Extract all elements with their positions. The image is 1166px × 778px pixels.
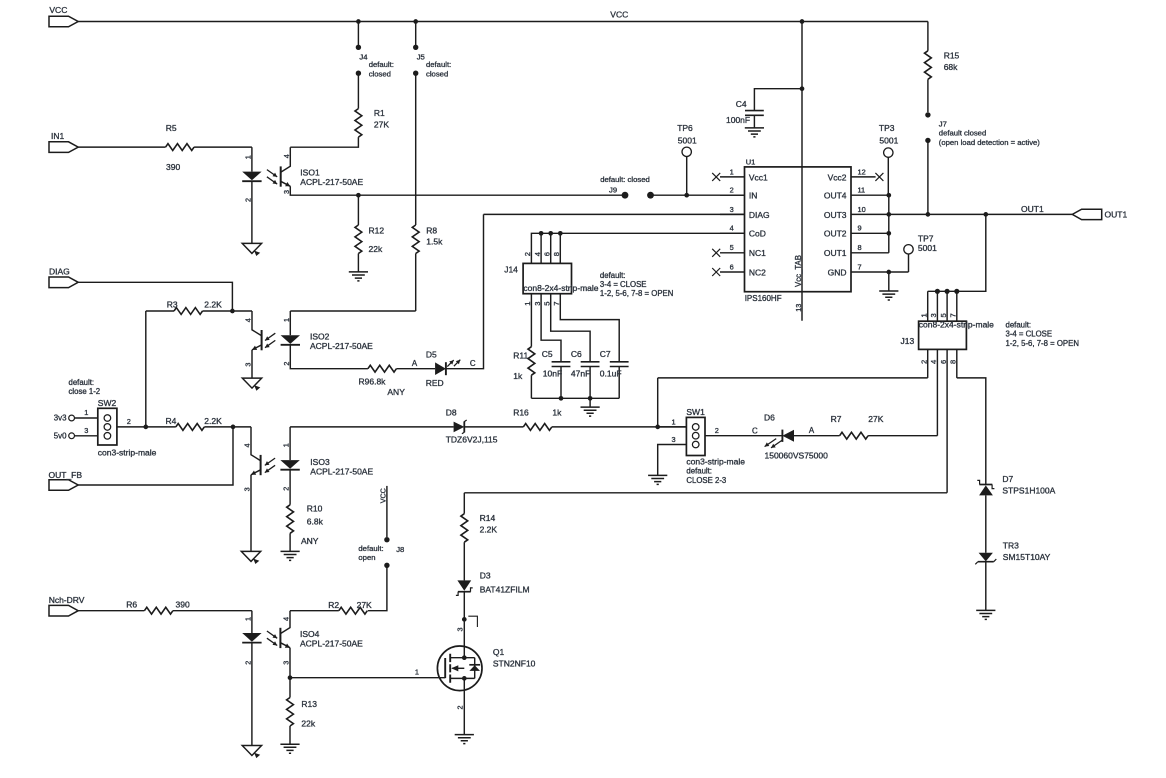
svg-text:3: 3: [672, 435, 676, 444]
capacitor C4: [726, 89, 802, 128]
junction Q1 source: [462, 676, 467, 681]
svg-text:3: 3: [456, 628, 465, 632]
ISO3 LED anode lead: [289, 427, 291, 460]
switch SW2 con3-strip-male: [69, 378, 157, 458]
svg-text:default:: default:: [426, 60, 451, 69]
svg-text:R15: R15: [944, 50, 960, 60]
junction C5 rail: [559, 396, 564, 401]
junction J13 pin 7: [954, 289, 959, 294]
svg-text:RED: RED: [426, 378, 444, 388]
svg-text:0.1uF: 0.1uF: [600, 369, 622, 379]
svg-text:R5: R5: [166, 123, 177, 133]
wire DIAG to R3 junction: [78, 282, 232, 311]
junction OUT1 drop: [983, 212, 988, 217]
J13 default note: [1006, 321, 1079, 348]
svg-text:CoD: CoD: [749, 229, 766, 239]
J14 top pin 6: [550, 233, 552, 263]
resistor R1: [290, 108, 389, 147]
svg-text:OUT3: OUT3: [824, 210, 847, 220]
wire OUT1 drop to J13: [928, 214, 986, 291]
jumper J5: [413, 22, 451, 226]
svg-text:1k: 1k: [513, 371, 523, 381]
U1 pin 11 OUT4: [824, 186, 889, 201]
wire R5 to ISO1 pin1: [194, 146, 252, 148]
U1 pin 7 GND: [828, 262, 909, 277]
U1 pin 3 DIAG: [720, 205, 770, 220]
svg-text:27K: 27K: [868, 414, 883, 424]
svg-text:R96.8k: R96.8k: [359, 377, 387, 387]
svg-text:STN2NF10: STN2NF10: [493, 659, 536, 669]
wire R8 to ISO2 LED pin1: [290, 310, 415, 312]
svg-text:5v0: 5v0: [54, 431, 67, 440]
J14 default note: [600, 271, 673, 298]
wire gate to Q1: [290, 677, 445, 679]
SW2 pin 2 wire: [117, 417, 176, 427]
svg-text:SM15T10AY: SM15T10AY: [1003, 552, 1051, 562]
svg-text:C7: C7: [600, 349, 611, 359]
ground R10: [281, 551, 300, 560]
J13 bottom pin 4: [929, 349, 938, 435]
svg-text:ACPL-217-50AE: ACPL-217-50AE: [310, 466, 373, 476]
svg-text:R2: R2: [328, 600, 339, 610]
ground R13: [280, 744, 299, 753]
svg-text:4: 4: [243, 444, 252, 448]
svg-text:closed: closed: [426, 69, 448, 78]
wire U1 CoD to J14: [531, 233, 744, 263]
J13 bottom pin 2: [919, 349, 928, 378]
svg-text:ISO2: ISO2: [310, 332, 330, 342]
svg-text:TP3: TP3: [879, 123, 895, 133]
svg-text:IN: IN: [749, 191, 758, 201]
wire VCC stub J8: [386, 486, 388, 537]
svg-text:R8: R8: [426, 225, 437, 235]
ISO2 phototransistor: [261, 330, 263, 350]
ISO3 LED: [280, 460, 299, 469]
svg-text:27K: 27K: [374, 120, 389, 130]
svg-text:1: 1: [243, 155, 252, 159]
ISO2 LED: [281, 335, 300, 344]
svg-text:ACPL-217-50AE: ACPL-217-50AE: [300, 177, 363, 187]
svg-text:2: 2: [523, 252, 532, 256]
junction J4 tap: [356, 19, 361, 24]
U1 pin 1 Vcc1: [712, 167, 768, 182]
node VCC input connector: [49, 16, 78, 27]
svg-text:100nF: 100nF: [726, 115, 750, 125]
svg-text:VCC: VCC: [49, 5, 67, 15]
resistor R12: [355, 195, 384, 272]
opto-isolator ISO3: [243, 427, 374, 492]
junction Q1 drain node: [462, 617, 467, 622]
opto-isolator ISO2: [243, 311, 373, 367]
svg-text:2.2K: 2.2K: [480, 524, 498, 534]
resistor R11: [513, 347, 535, 399]
junction J5 tap: [413, 19, 418, 24]
wire capacitor ground rail: [531, 397, 619, 399]
svg-text:D3: D3: [480, 570, 491, 580]
svg-text:2.2K: 2.2K: [204, 416, 222, 426]
connector J13 con8-2x4-strip-male: [901, 319, 995, 349]
wire ISO3 emitter to ground: [250, 475, 252, 552]
SW1 pin 1 wire: [658, 417, 687, 427]
ISO1 LED: [242, 172, 261, 181]
svg-text:default:: default:: [69, 378, 95, 387]
svg-text:1: 1: [919, 313, 928, 317]
ISO1 phototransistor: [280, 166, 282, 186]
resistor R2: [328, 600, 372, 614]
U1 pin 8 OUT1: [824, 243, 889, 258]
svg-text:R7: R7: [831, 414, 842, 424]
svg-text:default: closed: default: closed: [600, 175, 650, 184]
svg-text:3: 3: [282, 661, 291, 665]
wire ISO2 LED cathode to R96.8k: [290, 345, 368, 369]
svg-text:3-4 = CLOSE: 3-4 = CLOSE: [1006, 330, 1053, 339]
svg-text:6: 6: [939, 360, 948, 364]
svg-text:2.2K: 2.2K: [204, 300, 222, 310]
zener diode D8 TDZ6V2J,115: [446, 407, 498, 444]
svg-text:C: C: [470, 359, 476, 368]
svg-text:R1: R1: [374, 108, 385, 118]
testpoint TP3: [879, 123, 899, 195]
svg-text:default:: default:: [369, 60, 394, 69]
svg-text:NC2: NC2: [749, 267, 766, 277]
svg-text:1: 1: [730, 167, 734, 176]
svg-text:47nF: 47nF: [571, 369, 590, 379]
junction J13 pin 5: [945, 289, 950, 294]
wire J13 pin6 to bottom rail: [464, 492, 947, 494]
ground C4: [745, 128, 764, 137]
svg-text:2: 2: [282, 487, 291, 491]
op-amp U1 IPS160HF body: [745, 158, 852, 304]
wire TR3 to ground: [985, 562, 987, 611]
svg-text:7: 7: [949, 313, 958, 317]
svg-text:390: 390: [176, 599, 190, 609]
svg-text:5001: 5001: [678, 135, 697, 145]
ground capacitor rail: [581, 407, 600, 416]
svg-text:OUT1: OUT1: [824, 248, 847, 258]
ISO4 light arrows: [267, 631, 277, 638]
wire ISO4 emitter to junction: [289, 648, 291, 698]
ground TR3: [976, 610, 995, 619]
svg-text:1: 1: [282, 318, 291, 322]
node OUT1 output connector: [1072, 209, 1101, 219]
svg-text:R11: R11: [513, 350, 528, 360]
capacitor C5: [542, 349, 571, 398]
U1 pin 5 NC1: [712, 243, 766, 258]
svg-text:C4: C4: [736, 99, 747, 109]
svg-text:1k: 1k: [552, 407, 562, 417]
resistor R15: [925, 22, 960, 113]
wire ISO3 LED cathode to R10: [289, 470, 291, 505]
ground U1 GND: [879, 291, 898, 300]
svg-text:6: 6: [542, 252, 551, 256]
svg-text:ISO4: ISO4: [300, 629, 320, 639]
svg-text:R6: R6: [126, 599, 137, 609]
ISO3 light arrows: [265, 458, 275, 465]
svg-text:close 1-2: close 1-2: [69, 387, 101, 396]
wire U1 DIAG pin3: [484, 213, 745, 215]
wire J9 to U1 IN: [651, 194, 745, 196]
J13 top pin 3: [929, 291, 938, 321]
svg-text:OUT_FB: OUT_FB: [49, 470, 83, 480]
J13 bottom pin 8: [949, 349, 958, 378]
ISO1 LED anode lead: [251, 147, 253, 171]
wire ISO1 LED cathode: [251, 181, 253, 243]
svg-text:R13: R13: [301, 699, 317, 709]
svg-text:3: 3: [243, 363, 252, 367]
wire J13 pin4 to R7: [868, 435, 937, 437]
resistor R8: [412, 225, 443, 311]
wire GND stem: [888, 272, 890, 291]
wire J13 pin8 to D7 column: [957, 378, 986, 485]
svg-text:con8-2x4-strip-male: con8-2x4-strip-male: [523, 283, 598, 293]
svg-text:D5: D5: [426, 349, 437, 359]
svg-text:390: 390: [166, 162, 180, 172]
svg-text:150060VS75000: 150060VS75000: [765, 451, 829, 461]
U1 pin 6 NC2: [712, 262, 766, 277]
svg-text:STPS1H100A: STPS1H100A: [1002, 486, 1055, 496]
ISO4 LED: [242, 633, 261, 642]
wire bottom rail to R14: [463, 493, 465, 514]
svg-text:IN1: IN1: [51, 131, 65, 141]
ISO1 light arrows: [267, 170, 277, 177]
wire Vcc_TAB column: [801, 22, 803, 321]
svg-text:OUT1: OUT1: [1105, 210, 1128, 220]
svg-text:C5: C5: [542, 349, 553, 359]
testpoint TP7: [904, 234, 937, 273]
opto-isolator ISO1: [242, 147, 363, 202]
svg-text:BAT41ZFILM: BAT41ZFILM: [480, 584, 530, 594]
wire D3 to Q1 drain: [463, 592, 465, 658]
junction C4 tap: [800, 86, 805, 91]
svg-text:2: 2: [456, 706, 465, 710]
svg-text:2: 2: [243, 198, 252, 202]
wire OUT3 rail to OUT1 connector: [851, 213, 1072, 215]
U1 pin 4 CoD: [720, 224, 766, 239]
svg-text:10: 10: [858, 205, 866, 214]
wire OUT bus vertical: [888, 195, 890, 253]
resistor R3: [146, 300, 233, 315]
svg-text:1.5k: 1.5k: [426, 236, 443, 246]
J13 top pin 1: [919, 291, 928, 321]
svg-text:VCC: VCC: [610, 10, 628, 20]
svg-text:R14: R14: [480, 513, 496, 523]
junction SW1 pin1: [655, 425, 660, 430]
J13 top pin 7: [949, 291, 958, 321]
wire R16 to SW1: [552, 426, 687, 428]
wire D8 to R16: [464, 426, 523, 428]
svg-text:4: 4: [282, 617, 291, 621]
node OUT_FB input connector: [49, 480, 78, 491]
wire VCC rail: [78, 21, 928, 23]
wire ISO2 emitter to ground: [251, 350, 253, 378]
svg-text:11: 11: [858, 186, 866, 195]
junction Q1 drain: [462, 655, 467, 660]
J14 top pin 8: [559, 233, 561, 263]
svg-text:ACPL-217-50AE: ACPL-217-50AE: [310, 341, 373, 351]
svg-text:12: 12: [858, 167, 866, 176]
svg-text:1: 1: [415, 668, 419, 677]
U1 pin 10 OUT3: [824, 205, 866, 220]
svg-text:default closed: default closed: [939, 129, 986, 138]
ground ISO1 LED: [242, 243, 261, 253]
svg-text:con3-strip-male: con3-strip-male: [686, 456, 745, 466]
transistor Q1 STN2NF10: [437, 646, 535, 691]
junction OUT3 bus: [886, 212, 891, 217]
ground ISO3: [241, 551, 260, 561]
svg-text:J14: J14: [504, 265, 518, 275]
ISO4 phototransistor: [279, 628, 281, 648]
svg-text:3v3: 3v3: [54, 414, 67, 423]
junction R15 column: [926, 212, 931, 217]
svg-text:open: open: [358, 553, 375, 562]
svg-text:4: 4: [533, 252, 542, 256]
node Nch-DRV input connector: [49, 605, 78, 616]
ISO4 LED anode lead: [251, 611, 253, 633]
J14 top pin 4: [540, 233, 542, 263]
svg-text:TP7: TP7: [918, 234, 934, 244]
svg-text:OUT4: OUT4: [824, 191, 847, 201]
svg-text:5001: 5001: [879, 135, 898, 145]
svg-text:3-4 = CLOSE: 3-4 = CLOSE: [600, 280, 647, 289]
svg-text:4: 4: [929, 360, 938, 364]
svg-text:3: 3: [730, 205, 734, 214]
LED D6: [752, 413, 828, 461]
wire D6 to R7: [794, 435, 840, 437]
svg-text:22k: 22k: [369, 244, 383, 254]
svg-text:4: 4: [730, 224, 734, 233]
svg-text:5: 5: [730, 243, 734, 252]
junction DIAG/R3/ISO2: [230, 309, 235, 314]
resistor R6: [126, 599, 190, 614]
svg-text:1: 1: [84, 408, 88, 417]
junction J13 pin 3: [935, 289, 940, 294]
svg-text:J4: J4: [359, 53, 368, 62]
svg-text:TP6: TP6: [677, 123, 693, 133]
svg-text:OUT2: OUT2: [824, 229, 847, 239]
U1 pin 12 Vcc2: [828, 167, 884, 182]
svg-text:2: 2: [127, 417, 131, 426]
SW1 pin 3 wire: [658, 435, 687, 475]
svg-text:R3: R3: [167, 300, 178, 310]
svg-text:DIAG: DIAG: [49, 267, 70, 277]
svg-text:ANY: ANY: [301, 536, 319, 546]
svg-text:9: 9: [858, 224, 862, 233]
resistor R16: [513, 407, 562, 430]
svg-text:ISO3: ISO3: [310, 457, 330, 467]
wire R2 to ISO4 pin4: [290, 610, 339, 612]
svg-text:3: 3: [282, 190, 291, 194]
svg-text:4: 4: [244, 318, 253, 322]
svg-text:J9: J9: [609, 186, 617, 195]
LED D5: [426, 349, 461, 388]
wire ISO3 LED pin1 to D8: [290, 426, 454, 428]
junction SW2/R3: [143, 425, 148, 430]
svg-text:3: 3: [84, 426, 88, 435]
wire ISO4 LED cathode to ground: [251, 643, 253, 746]
svg-text:ANY: ANY: [387, 387, 405, 397]
svg-text:NC1: NC1: [749, 248, 766, 258]
svg-text:1: 1: [672, 417, 676, 426]
svg-text:J8: J8: [396, 545, 404, 554]
svg-text:A: A: [412, 359, 418, 368]
svg-text:ISO1: ISO1: [300, 167, 320, 177]
opto-isolator ISO4: [242, 611, 363, 665]
wire D5 to DIAG column: [446, 214, 484, 368]
junction OUT4: [886, 193, 891, 198]
svg-text:13: 13: [794, 304, 803, 312]
node DIAG input connector: [49, 277, 78, 288]
capacitor C6: [571, 349, 600, 398]
junction C6 rail: [588, 396, 593, 401]
resistor R14: [461, 513, 498, 580]
svg-text:2: 2: [282, 362, 291, 366]
U1 pin 9 OUT2: [824, 224, 889, 239]
J14 pin5 to C6: [551, 294, 590, 362]
svg-text:J5: J5: [417, 53, 425, 62]
svg-text:4: 4: [282, 154, 291, 158]
svg-text:10nF: 10nF: [543, 369, 562, 379]
wire IN1 to R5: [78, 146, 165, 148]
resistor R7: [831, 414, 884, 439]
svg-text:68k: 68k: [944, 62, 958, 72]
ground R12: [349, 272, 368, 281]
connector J14 con8-2x4-strip-male: [504, 263, 599, 293]
testpoint TP6: [677, 123, 697, 195]
junction OUT_FB tap: [231, 425, 236, 430]
ISO2 LED anode lead: [289, 311, 291, 335]
svg-text:default:: default:: [686, 467, 712, 476]
svg-text:8: 8: [949, 360, 958, 364]
svg-text:J7: J7: [939, 119, 947, 128]
diode D3 BAT41ZFILM: [456, 570, 530, 595]
svg-text:3: 3: [929, 313, 938, 317]
svg-text:GND: GND: [828, 267, 847, 277]
svg-text:closed: closed: [369, 69, 391, 78]
svg-text:CLOSE 2-3: CLOSE 2-3: [686, 476, 726, 485]
wire OUT_FB: [78, 427, 233, 485]
ground SW1 pin3: [648, 475, 667, 484]
wire J8 to R2: [368, 565, 387, 610]
wire Q1 source to ground: [463, 678, 465, 734]
svg-text:Q1: Q1: [493, 647, 505, 657]
svg-text:27K: 27K: [357, 600, 372, 610]
J13 bottom pin 6: [939, 349, 948, 492]
svg-text:5001: 5001: [918, 243, 937, 253]
svg-text:Nch-DRV: Nch-DRV: [49, 595, 85, 605]
wire R3 down to SW2 pin2: [145, 311, 147, 427]
svg-text:R4: R4: [166, 416, 177, 426]
jumper J9: [600, 175, 654, 199]
junction J14 pin 8: [558, 231, 563, 236]
junction J14 pin 4: [539, 231, 544, 236]
svg-text:IPS160HF: IPS160HF: [745, 294, 782, 303]
junction J14 pin 6: [548, 231, 553, 236]
svg-text:6: 6: [730, 262, 734, 271]
resistor R96.8k: [359, 365, 406, 397]
resistor R5: [166, 123, 195, 172]
svg-text:ACPL-217-50AE: ACPL-217-50AE: [300, 639, 363, 649]
svg-text:1: 1: [282, 443, 291, 447]
svg-text:J13: J13: [901, 336, 915, 346]
svg-text:C6: C6: [571, 349, 582, 359]
node IN1 input connector: [49, 142, 78, 153]
ISO2 light arrows: [265, 333, 275, 340]
SW1 pin 2 wire: [705, 426, 782, 436]
capacitor C7: [600, 349, 629, 398]
svg-text:C: C: [752, 426, 758, 435]
svg-text:5: 5: [939, 313, 948, 317]
svg-text:2: 2: [244, 661, 253, 665]
